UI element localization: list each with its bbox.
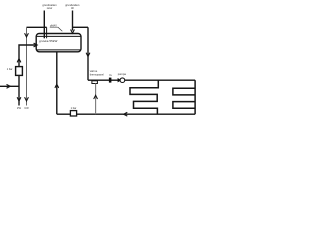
component expansion box under supply bbox=[92, 81, 98, 84]
svg-text:pumpa: pumpa bbox=[118, 73, 127, 76]
svg-text:ZW: ZW bbox=[17, 107, 22, 110]
wire right comb lower bbox=[173, 102, 195, 109]
arrow right on feed line bbox=[7, 85, 10, 88]
wire coil outer right vertical bbox=[194, 80, 196, 114]
valve BV solid square bbox=[109, 78, 112, 83]
svg-text:grundvatten: grundvatten bbox=[42, 3, 57, 7]
arrow up on safety drop bbox=[94, 95, 97, 98]
svg-text:till: till bbox=[71, 6, 74, 10]
callout pMAX bbox=[50, 27, 63, 31]
arrow right into tank bbox=[34, 43, 37, 46]
wire pipe1b dip tube bbox=[46, 27, 48, 38]
component box B1 on return line bbox=[70, 111, 76, 116]
wire right comb serpentine bbox=[173, 88, 195, 95]
wire supply horizontal y80 bbox=[88, 79, 195, 81]
svg-text:retur: retur bbox=[47, 6, 53, 10]
svg-text:gruvka 55kW: gruvka 55kW bbox=[39, 39, 57, 43]
svg-text:thermopanel: thermopanel bbox=[90, 73, 104, 76]
arrow left on return line bbox=[124, 113, 127, 116]
wire branch1 horizontal y27 bbox=[27, 26, 47, 28]
tank T1 bbox=[36, 34, 81, 52]
tank inner top line bbox=[36, 35, 80, 37]
arrow up on left riser bbox=[17, 59, 20, 62]
wire safety drop x95.6 bbox=[95, 83, 97, 114]
svg-text:grundvatten: grundvatten bbox=[65, 3, 80, 7]
wire pipe2 from label2 down to tank bbox=[72, 11, 74, 31]
arrow down well bottom x26.5 bbox=[25, 98, 28, 101]
wire return riser x56.8 tank bottom bbox=[56, 52, 58, 114]
wire vertical x88 down to supply bbox=[87, 27, 89, 80]
arrow up on return riser x56.8 bbox=[55, 84, 58, 87]
wire pipe1 from label1 down into tank bbox=[43, 11, 45, 39]
arrow down on x88 bbox=[86, 53, 89, 56]
tank inner bottom line bbox=[36, 49, 80, 51]
wire feed horizontal y86.3 bbox=[0, 85, 19, 87]
wire vertical x26.5 to well bbox=[26, 27, 28, 105]
wire return horizontal y113.7 bbox=[57, 113, 195, 115]
component F1 box on left riser bbox=[16, 67, 23, 76]
svg-text:1 bar: 1 bar bbox=[7, 68, 13, 71]
svg-text:1 bar: 1 bar bbox=[71, 107, 77, 110]
svg-text:pMAX: pMAX bbox=[50, 25, 57, 28]
wire branch2 horizontal y27 bbox=[73, 26, 89, 28]
wire left riser x19 bbox=[19, 45, 36, 106]
arrow down into tank x72.5 bbox=[71, 30, 74, 33]
wire left comb serpentine bbox=[130, 80, 158, 114]
arrow down into well x26.5 top bbox=[25, 34, 28, 37]
arrow down well bottom x19 bbox=[17, 98, 20, 101]
svg-text:CW: CW bbox=[24, 107, 29, 110]
pump P1 bbox=[118, 78, 125, 83]
